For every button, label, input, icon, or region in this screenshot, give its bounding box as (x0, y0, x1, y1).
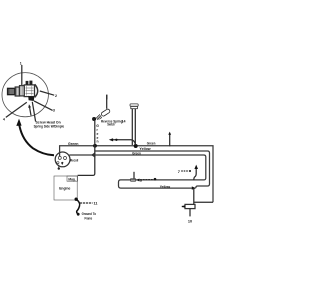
reverse switch drop wire (94, 121, 96, 146)
spade leader with dot (112, 140, 135, 145)
green lower wire (69, 155, 206, 188)
svg-text:14: 14 (122, 120, 126, 124)
battery arrow stub (169, 134, 171, 146)
connector cap (130, 104, 138, 109)
wire leader from 1 (21, 65, 23, 85)
svg-text:4: 4 (3, 117, 5, 121)
svg-text:1: 1 (20, 61, 22, 65)
loop drop to module (194, 188, 213, 204)
black mounting tab (28, 96, 34, 101)
recoil ground stub (58, 165, 60, 168)
leader to 3 (34, 101, 53, 111)
svg-text:n: n (97, 140, 99, 144)
green vertical letters (96, 124, 99, 144)
ground lead label 11 (80, 202, 93, 204)
interlock arrow connector (194, 169, 196, 181)
ground text (82, 212, 97, 220)
reverse switch label (101, 120, 123, 127)
ground dot (77, 213, 80, 216)
svg-text:Green: Green (147, 142, 156, 146)
terminal tab A (26, 81, 29, 85)
mag lead (78, 146, 95, 176)
inline connector housing (131, 179, 136, 182)
hex nut (15, 87, 19, 96)
inset detail circle (2, 73, 48, 117)
svg-text:Yellow: Yellow (160, 185, 171, 189)
svg-text:Mag.: Mag. (68, 177, 75, 181)
svg-text:Recoil: Recoil (70, 159, 78, 163)
junction dot B (134, 144, 138, 148)
engine ground dot (75, 198, 78, 201)
svg-text:7: 7 (178, 169, 181, 174)
mag box (67, 176, 78, 181)
ground squiggle (77, 200, 80, 215)
leader to 4 (6, 102, 27, 117)
screw threaded shank (8, 88, 16, 94)
terminal tab B (29, 81, 32, 85)
inline connector arrow (136, 179, 139, 182)
switch top terminal (106, 97, 108, 109)
recoil starter (55, 152, 70, 167)
svg-text:Spring Side W/Dimple: Spring Side W/Dimple (34, 125, 65, 129)
svg-text:11: 11 (94, 202, 98, 206)
thick locator arrow (19, 125, 54, 156)
note arrow to screw tab (30, 107, 32, 116)
module lead down (189, 209, 191, 217)
connector arrow on green lower wire (92, 153, 95, 157)
text leader line (32, 102, 35, 122)
leader to 2 (40, 91, 54, 95)
svg-text:3: 3 (53, 109, 55, 113)
connector twin leads (132, 109, 135, 145)
note text (34, 120, 65, 128)
inline connector stub on loop top (133, 172, 135, 179)
svg-text:Frame: Frame (85, 217, 93, 221)
svg-text:10: 10 (188, 220, 192, 224)
wire green main (60, 146, 213, 203)
svg-text:Engine: Engine (59, 186, 71, 191)
loop connector arrow right (192, 186, 196, 189)
bracket curved strap (35, 84, 38, 97)
reverse spring switch body (96, 108, 111, 120)
washer (20, 86, 25, 96)
svg-text:Yellow: Yellow (139, 147, 150, 151)
switch end blob (92, 117, 96, 121)
engine box (54, 176, 77, 200)
junction dot A (93, 144, 97, 148)
switch body (24, 85, 34, 97)
svg-text:2: 2 (55, 94, 57, 98)
svg-text:Switch: Switch (107, 123, 115, 127)
yellow wire (95, 151, 210, 188)
ignition module (182, 204, 195, 208)
